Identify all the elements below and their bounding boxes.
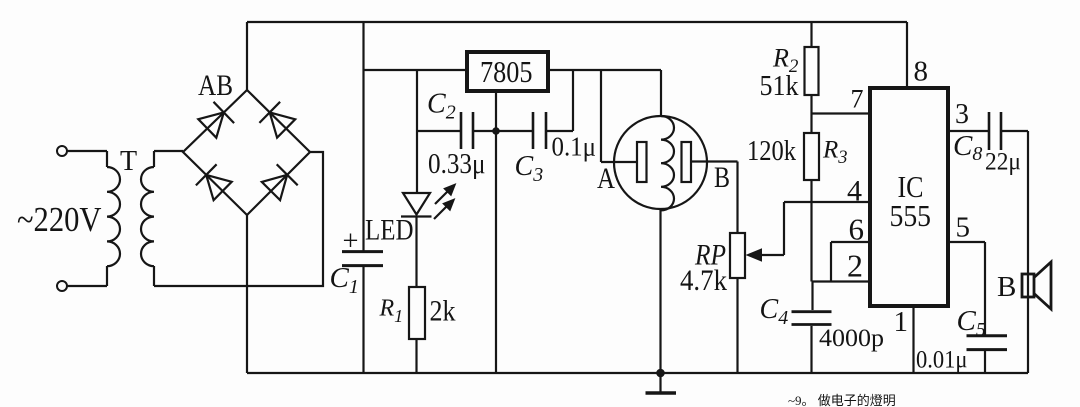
wire top rail xyxy=(247,21,907,23)
svg-text:2k: 2k xyxy=(430,295,456,328)
wire bottom rail xyxy=(247,372,1028,374)
capacitor C4 plates xyxy=(792,312,832,325)
resistor R3 body xyxy=(804,133,819,180)
regulator 7805 box xyxy=(467,52,548,91)
sensor electrode A xyxy=(637,142,647,182)
svg-text:7805: 7805 xyxy=(480,54,533,89)
wire pin5 xyxy=(950,242,985,335)
transformer T secondary winding xyxy=(141,151,154,286)
svg-text:C8: C8 xyxy=(953,130,982,165)
wire C2 right to gnd node xyxy=(474,130,496,132)
wire 7805 ground drop xyxy=(495,93,497,373)
svg-text:6: 6 xyxy=(849,212,865,247)
wire C2 left xyxy=(417,130,460,132)
wire C3 left xyxy=(496,130,532,132)
wire RP wiper xyxy=(762,202,784,255)
wire 7805 input xyxy=(364,69,466,71)
svg-text:7: 7 xyxy=(851,85,864,114)
wire LED branch top xyxy=(416,70,418,193)
svg-text:B: B xyxy=(997,271,1016,303)
wire R2 top xyxy=(810,22,812,47)
IC 555 box xyxy=(870,88,948,306)
wire sensor bottom to ground xyxy=(659,209,661,373)
svg-text:C5: C5 xyxy=(957,305,986,341)
svg-text:3: 3 xyxy=(955,99,969,130)
sensor heater coil xyxy=(661,116,674,210)
node AC terminal top xyxy=(57,146,67,156)
LED D5 xyxy=(401,193,432,217)
svg-text:~9。 做电子的燈明: ~9。 做电子的燈明 xyxy=(788,393,896,407)
wire C1 branch lower xyxy=(362,267,364,374)
diode D3 bottom-left xyxy=(196,164,232,200)
wire LED to R1 xyxy=(415,217,417,288)
svg-text:R1: R1 xyxy=(379,296,404,327)
resistor R2 body xyxy=(805,47,819,95)
speaker B xyxy=(1022,262,1051,309)
wire RP bottom xyxy=(736,278,738,373)
svg-text:51k: 51k xyxy=(760,71,799,102)
svg-text:C2: C2 xyxy=(427,89,456,124)
transformer T primary winding xyxy=(107,151,120,286)
node AC terminal bottom xyxy=(57,281,67,291)
bridge rectifier AB diamond xyxy=(183,90,310,215)
wire bridge top to rail xyxy=(246,22,248,90)
wire R3 bottom to pin2 node xyxy=(810,180,812,282)
capacitor C8 plates xyxy=(989,112,1001,150)
capacitor C1 plates xyxy=(342,252,383,266)
wire pin7 xyxy=(812,112,869,114)
wire secondary top to bridge left xyxy=(154,150,183,152)
svg-text:~220V: ~220V xyxy=(17,200,102,239)
wire sensor heater top xyxy=(660,70,662,116)
potentiometer RP body xyxy=(730,233,745,278)
wire C4 bottom xyxy=(810,326,812,373)
svg-text:+: + xyxy=(343,226,359,257)
wire pin2 xyxy=(813,280,869,282)
svg-text:0.01μ: 0.01μ xyxy=(916,345,968,374)
wire C5 bottom xyxy=(984,351,986,373)
svg-text:AB: AB xyxy=(198,69,233,102)
svg-text:4000p: 4000p xyxy=(819,325,884,352)
LED emission arrows xyxy=(434,184,456,219)
svg-text:120k: 120k xyxy=(747,136,796,167)
wire AC top xyxy=(67,150,107,152)
svg-text:8: 8 xyxy=(914,56,929,88)
wire 7805 output xyxy=(550,69,661,71)
wire R2-R3 (pin7 node) xyxy=(810,95,812,133)
wire R1 to ground rail xyxy=(415,339,417,373)
capacitor C2 plates xyxy=(461,112,473,149)
sensor electrode B xyxy=(682,142,692,182)
wire AC bottom xyxy=(67,285,107,287)
wire pin4 xyxy=(784,201,868,203)
svg-text:C3: C3 xyxy=(515,151,544,186)
wire pin3 xyxy=(950,130,988,132)
svg-text:4.7k: 4.7k xyxy=(680,264,727,297)
svg-text:0.33μ: 0.33μ xyxy=(428,148,486,180)
capacitor C5 plates xyxy=(967,336,1008,350)
resistor R1 body xyxy=(409,287,425,339)
capacitor C3 plates xyxy=(533,112,546,149)
wire pin2 node to C4 xyxy=(811,282,813,311)
diode D4 bottom-right xyxy=(262,164,298,200)
node junction dot C2/C3/gnd xyxy=(492,127,500,135)
svg-text:5: 5 xyxy=(956,212,971,244)
svg-text:C4: C4 xyxy=(760,294,789,329)
svg-text:555: 555 xyxy=(890,198,932,233)
wire sensor B to RP xyxy=(691,162,738,234)
wire bridge bottom to rail xyxy=(246,215,248,373)
wire secondary bottom to bridge right xyxy=(154,152,323,286)
RP wiper arrowhead xyxy=(746,248,763,261)
svg-text:T: T xyxy=(120,146,137,177)
diode D1 top-left xyxy=(198,102,234,138)
wire pin8 drop xyxy=(906,22,908,88)
gas sensor body circle xyxy=(614,116,707,209)
svg-text:C1: C1 xyxy=(330,262,359,298)
svg-text:B: B xyxy=(714,161,730,194)
svg-text:LED: LED xyxy=(365,214,414,247)
node ground junction dot xyxy=(656,369,665,378)
wire sensor A riser xyxy=(601,70,636,162)
svg-text:1: 1 xyxy=(894,306,909,338)
diode D2 top-right xyxy=(259,102,295,138)
wire C1 branch upper xyxy=(362,22,364,251)
wire pin6 loop xyxy=(831,242,868,282)
wire pin1 to ground rail xyxy=(912,308,914,373)
svg-text:22μ: 22μ xyxy=(985,147,1021,176)
wire C8 right to speaker xyxy=(1002,131,1028,373)
wire C3 right xyxy=(547,70,573,131)
svg-text:R3: R3 xyxy=(822,137,848,169)
ground symbol xyxy=(646,373,677,393)
svg-text:A: A xyxy=(597,162,615,195)
svg-text:4: 4 xyxy=(847,175,862,208)
svg-text:0.1μ: 0.1μ xyxy=(552,132,597,162)
svg-text:2: 2 xyxy=(847,248,863,284)
